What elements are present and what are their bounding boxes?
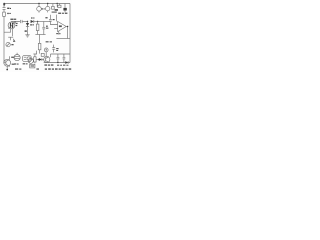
label R1 value	[7, 13, 11, 14]
transistor TR2	[44, 56, 50, 62]
lamp LP1	[37, 4, 42, 13]
capacitor C7	[63, 54, 66, 63]
speaker LS1	[14, 53, 20, 61]
capacitor C4	[49, 15, 57, 25]
ground under D2	[25, 35, 29, 37]
label node marker	[25, 30, 27, 31]
label MIC1	[16, 23, 18, 26]
node B rail junction LP1	[38, 3, 39, 4]
label box X1	[41, 53, 44, 56]
wire chain to C4	[38, 21, 51, 23]
label C2	[14, 19, 17, 20]
microphone MIC1	[8, 21, 16, 28]
capacitor C3	[42, 22, 45, 35]
label S1	[52, 9, 58, 13]
wire top link	[51, 53, 71, 55]
wire right rail	[69, 4, 71, 63]
wire left rail upper	[3, 4, 5, 8]
label D1 value	[58, 13, 67, 14]
label bottom values	[57, 65, 68, 66]
op-amp IC1	[54, 21, 66, 34]
diode D5	[65, 61, 68, 64]
capacitor C5	[52, 45, 55, 53]
wire left mid marks	[8, 37, 15, 42]
wire left rail mid	[3, 16, 5, 62]
battery B1	[30, 64, 35, 68]
node H emitter	[6, 69, 8, 71]
diode D1	[63, 4, 66, 13]
label C1 value	[7, 8, 11, 9]
node A top-left junction	[3, 3, 5, 6]
label MIC1 top	[10, 19, 13, 20]
wire TR2 collector top	[50, 54, 52, 57]
label IC1 pins	[56, 33, 60, 34]
label C4	[45, 17, 54, 20]
resistor R3	[36, 22, 39, 35]
lamp LP2	[46, 4, 50, 13]
wire chain input	[12, 21, 20, 24]
wire output bus	[56, 38, 70, 40]
diode D3 series	[31, 20, 38, 23]
label C5 value	[56, 48, 58, 51]
label caption row	[15, 68, 71, 70]
capacitor C6	[57, 54, 60, 63]
label J1	[11, 44, 13, 45]
node E detector junction	[27, 21, 28, 22]
resistor R5	[34, 54, 36, 63]
label TR2	[44, 64, 53, 65]
resistor R2 top right	[58, 4, 61, 8]
label IC1	[59, 25, 62, 27]
label D3	[31, 17, 35, 18]
label LS1	[14, 63, 19, 64]
node F	[37, 21, 38, 22]
wire feedback down	[67, 27, 69, 39]
node I	[38, 59, 40, 61]
diode D2 shunt	[26, 22, 29, 35]
wire TR1 emitter down	[6, 66, 8, 69]
label arrow note	[13, 41, 15, 42]
node J	[57, 62, 58, 63]
transformer T1	[23, 55, 32, 61]
wire TR1 collector	[9, 56, 11, 59]
wire corner	[33, 51, 36, 54]
capacitor C1	[3, 8, 6, 13]
wire LED to TR2	[45, 52, 47, 57]
resistor R4	[38, 35, 41, 54]
diode D4	[36, 58, 44, 61]
label C3 value	[46, 26, 48, 29]
meter M1	[28, 58, 33, 63]
label T1	[23, 63, 28, 64]
node C rail junction LP2	[47, 3, 48, 4]
resistor R1	[3, 12, 6, 16]
wire bottom rail right	[44, 62, 70, 64]
label R4 value	[46, 41, 52, 42]
node D rail junction S1	[57, 3, 58, 4]
wire S1 to rail	[56, 4, 58, 7]
transistor TR1	[4, 59, 11, 66]
wire supply to op-amp	[56, 15, 58, 22]
node G output	[67, 26, 68, 27]
label LP1	[42, 8, 45, 9]
switch S1	[52, 4, 55, 10]
capacitor C2	[21, 20, 28, 23]
indicator LED1	[44, 48, 48, 52]
label TR1	[11, 57, 14, 65]
label D2 value	[30, 24, 34, 25]
jack J1	[6, 42, 10, 46]
wire MIC1 legs	[4, 29, 13, 37]
wire top supply rail	[4, 3, 70, 5]
wire lower bus	[35, 34, 45, 36]
wire IC1 output	[66, 26, 67, 28]
